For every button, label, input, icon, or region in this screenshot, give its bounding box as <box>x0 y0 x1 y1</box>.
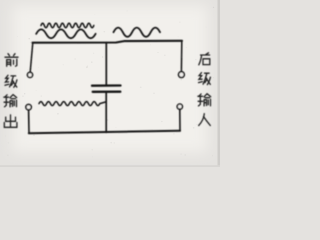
wire: middle squiggle lead to capacitor <box>39 102 106 106</box>
inductor L1 coil (top-left large wave) <box>36 29 95 38</box>
terminal: 前级输出 top (open circle) <box>27 72 32 77</box>
label 后级输入 (right column, hand-drawn glyphs) <box>198 53 211 126</box>
glyph 输 (right) <box>198 94 211 106</box>
glyph 入 <box>199 114 211 126</box>
terminal: 后级输入 top (open circle) <box>179 72 185 78</box>
glyph 后 <box>199 53 210 65</box>
scan edge right <box>218 0 221 167</box>
paper background <box>0 0 220 167</box>
scan edge bottom <box>0 165 220 167</box>
capacitor C lower lead <box>105 93 107 133</box>
glyph 输 (left) <box>4 95 17 107</box>
paper grain specks <box>5 7 214 157</box>
wire: top-right drop to terminal <box>180 41 182 71</box>
terminal: 后级输入 bottom (open circle) <box>177 104 182 109</box>
capacitor C upper lead <box>105 43 107 85</box>
wire: bottom ground rail <box>29 131 180 133</box>
wire: bottom-right terminal down to ground rail <box>179 109 181 130</box>
glyph 级 (right) <box>199 73 211 85</box>
capacitor C top plate <box>92 84 121 86</box>
inductor L1 scribble winding (top-left small squiggle) <box>41 23 94 27</box>
label 前级输出 (left column, hand-drawn glyphs) <box>4 54 18 128</box>
glyph 前 <box>5 54 18 66</box>
terminal: 前级输出 bottom (open circle) <box>26 104 31 109</box>
inductor L2 coil (top-right wave) <box>114 28 161 37</box>
capacitor C bottom plate <box>93 91 121 93</box>
wire: top rail <box>33 41 183 43</box>
glyph 级 (left) <box>5 75 17 87</box>
wire: top-left drop to terminal <box>30 43 33 72</box>
wire: bottom-left terminal down to ground rail <box>28 110 30 133</box>
glyph 出 <box>4 115 17 127</box>
